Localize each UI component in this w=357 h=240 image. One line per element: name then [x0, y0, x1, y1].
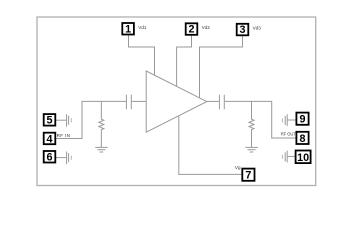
- pin 4: [44, 133, 56, 146]
- svg-text:Vd1: Vd1: [138, 25, 147, 30]
- wire Vg from amplifier to pin7: [179, 116, 242, 175]
- svg-text:2: 2: [188, 24, 194, 36]
- pin 10: [296, 151, 311, 164]
- label Vg: [235, 165, 241, 170]
- wire pin1 to amplifier: [129, 35, 155, 76]
- svg-text:RF IN: RF IN: [57, 133, 70, 138]
- ground (output side): [245, 147, 257, 152]
- op-amp U1 (amplifier triangle): [146, 71, 207, 132]
- svg-text:Vd2: Vd2: [202, 25, 211, 30]
- svg-text:6: 6: [46, 152, 52, 164]
- wire C1 to amplifier input: [132, 100, 146, 102]
- resistor R1 (input shunt): [99, 101, 104, 147]
- svg-text:4: 4: [46, 133, 52, 145]
- svg-text:7: 7: [245, 170, 251, 182]
- pin 3: [237, 24, 249, 36]
- pin 1: [122, 23, 134, 35]
- pin 8: [296, 132, 308, 145]
- capacitor stub at pin9: [282, 114, 296, 126]
- wire RF IN from pin4: [56, 101, 126, 138]
- capacitor stub at pin5: [56, 114, 71, 127]
- label Vd3: [253, 26, 262, 31]
- svg-text:1: 1: [125, 23, 131, 35]
- capacitor stub at pin10: [282, 151, 295, 163]
- capacitor stub at pin6: [56, 152, 71, 165]
- capacitor C1 (input DC block): [126, 95, 131, 110]
- pin 6: [44, 151, 56, 164]
- svg-text:8: 8: [299, 133, 305, 145]
- label RF IN: [57, 133, 70, 138]
- wire pin3 to amplifier: [200, 36, 243, 98]
- resistor R2 (output shunt): [249, 101, 254, 147]
- wire pin2 to amplifier: [177, 35, 192, 86]
- svg-text:Vd3: Vd3: [253, 26, 262, 31]
- pin 9: [296, 113, 308, 126]
- wire RF OUT to pin8: [225, 101, 296, 138]
- svg-text:Vg: Vg: [235, 165, 241, 170]
- ground (input side): [95, 147, 107, 152]
- package outline: [37, 17, 316, 186]
- capacitor C2 (output DC block): [219, 95, 224, 110]
- label Vd1: [138, 25, 147, 30]
- wire amplifier output: [207, 100, 219, 102]
- pin 2: [186, 23, 198, 35]
- pin 7: [242, 169, 254, 182]
- label Vd2: [202, 25, 211, 30]
- svg-text:3: 3: [239, 24, 245, 36]
- pin 5: [44, 114, 56, 127]
- svg-text:RF OUT: RF OUT: [281, 132, 296, 137]
- svg-text:5: 5: [46, 115, 52, 127]
- svg-text:9: 9: [299, 114, 305, 126]
- label RF OUT: [281, 132, 296, 137]
- svg-text:10: 10: [297, 152, 309, 164]
